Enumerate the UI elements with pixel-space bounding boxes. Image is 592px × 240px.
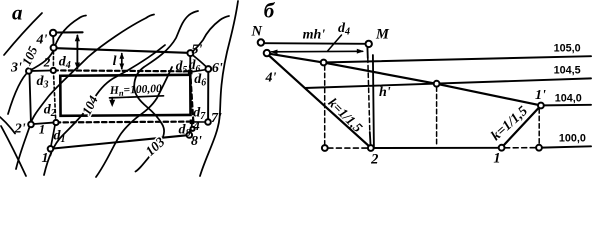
svg-text:104,0: 104,0: [555, 92, 582, 104]
svg-text:4': 4': [36, 33, 48, 48]
svg-text:1': 1': [535, 88, 546, 103]
svg-text:104,5: 104,5: [554, 65, 581, 77]
svg-text:1: 1: [493, 151, 500, 167]
svg-text:7': 7': [211, 111, 222, 126]
svg-text:mh': mh': [303, 28, 326, 43]
svg-text:100,0: 100,0: [559, 133, 586, 145]
svg-text:4': 4': [265, 70, 277, 85]
svg-text:5': 5': [192, 42, 203, 57]
svg-text:б: б: [264, 0, 276, 23]
svg-text:а: а: [12, 1, 23, 25]
svg-text:105,0: 105,0: [554, 43, 581, 55]
svg-text:2: 2: [370, 152, 378, 168]
svg-text:8': 8': [191, 134, 202, 149]
svg-text:2: 2: [43, 55, 51, 70]
svg-text:h': h': [379, 85, 391, 100]
svg-text:N: N: [250, 23, 262, 39]
svg-text:4: 4: [192, 118, 200, 133]
svg-text:6': 6': [212, 61, 223, 76]
svg-text:l: l: [113, 54, 117, 69]
svg-text:2': 2': [14, 121, 26, 136]
svg-text:1: 1: [39, 122, 46, 137]
svg-text:M: M: [375, 27, 390, 43]
svg-text:1': 1': [42, 151, 53, 166]
